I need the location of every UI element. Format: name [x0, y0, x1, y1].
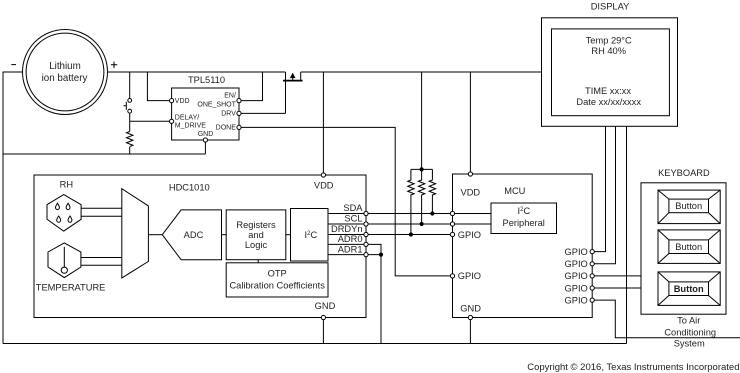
svg-text:ADC: ADC — [184, 230, 204, 240]
wire GPIO1 to DISPLAY — [592, 126, 605, 251]
wire rail to HDC1010 VDD — [322, 72, 324, 175]
svg-text:Button: Button — [675, 201, 702, 211]
battery plus terminal label — [111, 62, 117, 68]
wire U1 DRV to Q1 gate — [239, 112, 286, 114]
svg-text:VDD: VDD — [175, 98, 190, 105]
battery minus terminal label — [11, 64, 16, 66]
svg-text:Temp 29°C: Temp 29°C — [586, 35, 632, 45]
U3 pin label GPIO (DONE output) — [458, 271, 481, 281]
resistor R1 (delay set) — [126, 132, 132, 147]
U2 pin label GND — [315, 301, 336, 311]
U1 pin circle DONE — [237, 125, 241, 129]
svg-text:M_DRIVE: M_DRIVE — [175, 123, 206, 130]
U1 pin label DONE — [216, 125, 237, 132]
wire GPIO5 to air conditioning system — [592, 300, 740, 338]
TEMP bus wires to mux — [81, 258, 122, 266]
U3 pin circle GPIO DRDYn — [450, 232, 454, 236]
svg-text:GPIO: GPIO — [565, 247, 588, 257]
junction dot R3/SCL — [420, 222, 424, 226]
svg-text:Date xx/xx/xxxx: Date xx/xx/xxxx — [576, 97, 641, 107]
U2 pin circle VDD — [321, 173, 325, 177]
OTP Calibration Coefficients box — [226, 263, 328, 297]
U2 pin circle SCL — [364, 222, 368, 226]
U1 pin label VDD — [175, 98, 190, 105]
wire DISPLAY ground drop — [626, 126, 628, 343]
button SW2 — [658, 230, 720, 264]
U3 pin circle GND — [468, 315, 472, 319]
wire rail to MCU VDD — [469, 72, 471, 174]
U3 right pin labels GPIO x5 — [565, 247, 588, 306]
U2 pin circle GND — [321, 315, 325, 319]
wire rail to pullup bar — [421, 72, 423, 169]
button SW1 — [658, 190, 720, 224]
svg-text:GPIO: GPIO — [565, 259, 588, 269]
svg-text:GPIO: GPIO — [565, 295, 588, 305]
svg-text:Logic: Logic — [245, 240, 268, 250]
Registers and Logic box — [226, 210, 286, 260]
svg-text:System: System — [674, 339, 705, 349]
wire ADC to Registers — [222, 234, 227, 236]
svg-text:VDD: VDD — [461, 187, 481, 197]
svg-text:GPIO: GPIO — [565, 283, 588, 293]
U1 pin circle DRV — [237, 111, 241, 115]
svg-text:I2C: I2C — [305, 230, 318, 240]
resistor R2 (DRDYn pull-up) — [408, 169, 414, 234]
wire GPIO4 to KEYBOARD — [592, 287, 641, 289]
svg-text:GND: GND — [315, 301, 336, 311]
TEMPERATURE sensor hexagon — [48, 243, 81, 278]
wire ground rail bottom — [3, 343, 627, 345]
junction dot ADR1/ADR0 ground tie — [379, 253, 383, 257]
junction dot R2/DRDYn — [409, 232, 413, 236]
timer U1 TPL5110 box — [172, 75, 239, 140]
I2C Peripheral box inside MCU — [491, 203, 557, 234]
svg-text:Copyright © 2016, Texas Instru: Copyright © 2016, Texas Instruments Inco… — [527, 362, 739, 373]
transistor Q1 (PMOS load switch) — [283, 72, 303, 113]
svg-text:GPIO: GPIO — [458, 271, 481, 281]
wire Registers to I2C block — [286, 234, 291, 236]
svg-text:GND: GND — [460, 303, 481, 313]
resistor R4 (SDA pull-up) — [429, 169, 435, 213]
svg-text:SCL: SCL — [344, 214, 362, 224]
svg-text:ONE_SHOT: ONE_SHOT — [197, 101, 236, 108]
wire/net ADR0 (tied to ground) — [328, 244, 381, 343]
controller U3 MCU box — [453, 174, 593, 318]
wire/net SDA (I2C block to MCU I2C peripheral) — [328, 213, 491, 215]
U1 pin label GND — [198, 131, 214, 138]
svg-text:To Air: To Air — [677, 315, 700, 325]
wire ground rail mid (battery return to TPL5110 GND) — [3, 153, 205, 155]
button SW3 — [658, 272, 720, 306]
U1 pin circle EN/ONE_SHOT — [237, 99, 241, 103]
wire node to TPL5110 DELAY/M_DRIVE pin — [130, 120, 172, 122]
wire mux to ADC — [148, 234, 162, 236]
wire GPIO2 to DISPLAY — [592, 126, 615, 263]
U3 pin circle SCL — [450, 222, 454, 226]
svg-text:DRV: DRV — [221, 111, 236, 118]
RH bus wires to mux — [81, 208, 122, 216]
U2 pin label VDD — [314, 181, 334, 191]
svg-text:GPIO: GPIO — [458, 230, 481, 240]
svg-text:EN/: EN/ — [224, 93, 236, 100]
svg-text:Peripheral: Peripheral — [503, 218, 545, 228]
U2 pin label SDA — [343, 203, 363, 213]
wire plus rail to U1 VDD — [147, 72, 171, 101]
svg-text:OTP: OTP — [268, 269, 287, 279]
U2 pin circle ADR0 — [364, 242, 368, 246]
RH sensor label — [60, 180, 73, 190]
svg-text:GND: GND — [198, 131, 214, 138]
U3 pin circle GPIO DONE — [450, 274, 454, 278]
U1 pin circle GND — [203, 138, 207, 142]
svg-text:KEYBOARD: KEYBOARD — [658, 168, 710, 178]
svg-text:Registers: Registers — [236, 220, 276, 230]
U2 pin label ADR1 — [338, 244, 363, 254]
svg-text:GPIO: GPIO — [565, 271, 588, 281]
U3 pin circle GPIO5 — [590, 298, 594, 302]
switch S1 (momentary pushbutton) — [124, 99, 132, 114]
wire switch drop from plus rail — [129, 72, 131, 98]
svg-text:ion battery: ion battery — [42, 73, 88, 84]
svg-text:TEMPERATURE: TEMPERATURE — [36, 283, 106, 293]
U2 pin label SCL — [344, 214, 362, 224]
U3 pin circle GPIO2 — [590, 262, 594, 266]
wire/net SCL — [328, 223, 491, 225]
wire U1 EN/ONE_SHOT to plus rail — [239, 72, 263, 101]
U1 pin label DELAY/M_DRIVE — [175, 114, 206, 129]
U3 pin circle GPIO1 — [590, 250, 594, 254]
wire U3 GND to ground rail — [469, 318, 471, 344]
U3 pin label GND — [460, 303, 481, 313]
U1 pin label EN/ONE_SHOT — [197, 93, 236, 109]
U1 pin label DRV — [221, 111, 236, 118]
svg-text:RH 40%: RH 40% — [591, 46, 626, 56]
wire/net DRDYn to MCU GPIO — [328, 234, 453, 236]
wire R1 to ground rail — [129, 147, 131, 154]
U3 pin label GPIO (DRDYn input) — [458, 230, 481, 240]
battery BT1 (Lithium ion battery) — [23, 30, 108, 115]
svg-text:Conditioning: Conditioning — [664, 328, 716, 338]
svg-text:DRDYn: DRDYn — [331, 224, 363, 234]
node label To Air Conditioning System — [664, 315, 716, 348]
svg-text:HDC1010: HDC1010 — [169, 183, 210, 193]
svg-text:TPL5110: TPL5110 — [188, 75, 225, 85]
resistor R3 (SCL pull-up) — [418, 169, 424, 224]
U2 pin label ADR0 — [338, 234, 363, 244]
svg-text:VDD: VDD — [314, 181, 334, 191]
wire VDD top rail (right of Q1) to DISPLAY — [301, 71, 542, 73]
U2 pin circle ADR1 — [364, 253, 368, 257]
U2 pin circle DRDYn — [364, 232, 368, 236]
svg-text:DELAY/: DELAY/ — [175, 114, 199, 121]
junction dot R4/SDA — [430, 211, 434, 215]
U2 pin label DRDYn — [331, 224, 363, 234]
U3 pin circle GPIO4 — [590, 286, 594, 290]
display module DISPLAY — [542, 2, 678, 127]
ADC block — [162, 210, 221, 260]
svg-text:DONE: DONE — [216, 125, 237, 132]
wire battery minus to left rail — [3, 72, 23, 344]
wire Registers to OTP — [257, 260, 259, 263]
svg-text:SDA: SDA — [343, 203, 363, 213]
junction dot pullup bar — [420, 167, 424, 171]
svg-text:Button: Button — [674, 284, 704, 294]
svg-text:I2C: I2C — [518, 206, 531, 216]
sensor U2 HDC1010 box — [34, 175, 366, 318]
U3 pin circle VDD — [468, 172, 472, 176]
U3 pin label VDD — [461, 187, 481, 197]
keyboard module KEYBOARD — [641, 168, 726, 314]
I2C block (HDC1010 interface) — [291, 209, 329, 262]
TEMPERATURE label — [36, 283, 106, 293]
svg-text:and: and — [248, 230, 264, 240]
svg-text:ADR1: ADR1 — [338, 244, 363, 254]
wire U1 DONE to MCU GPIO — [239, 127, 453, 276]
svg-text:DISPLAY: DISPLAY — [591, 2, 630, 12]
svg-text:TIME xx:xx: TIME xx:xx — [585, 86, 631, 96]
svg-text:Calibration Coefficients: Calibration Coefficients — [229, 281, 325, 291]
U3 pin circle SDA — [450, 211, 454, 215]
wire U1 GND to ground rail — [204, 140, 206, 154]
wire GPIO3 to KEYBOARD — [592, 275, 641, 277]
wire switch to DELAY/M_DRIVE node — [129, 113, 131, 131]
wire/net ADR1 (tied to ground) — [328, 254, 381, 256]
U2 pin circle SDA — [364, 211, 368, 215]
U3 pin circle GPIO3 — [590, 274, 594, 278]
copyright notice — [527, 362, 739, 373]
wire pullup top bar — [411, 168, 433, 170]
svg-text:Lithium: Lithium — [49, 61, 81, 72]
svg-text:Button: Button — [675, 242, 702, 252]
svg-text:MCU: MCU — [504, 186, 525, 196]
wire battery plus rail (VDD top rail, left of Q1) — [108, 71, 286, 73]
U1 pin circle VDD — [170, 99, 174, 103]
U1 pin circle DELAY/M_DRIVE — [170, 119, 174, 123]
svg-text:RH: RH — [60, 180, 73, 190]
RH humidity sensor hexagon — [47, 195, 81, 232]
wire U2 GND to ground rail — [322, 318, 324, 344]
mux (sensor multiplexer trapezoid) — [122, 189, 149, 278]
svg-text:ADR0: ADR0 — [338, 234, 363, 244]
